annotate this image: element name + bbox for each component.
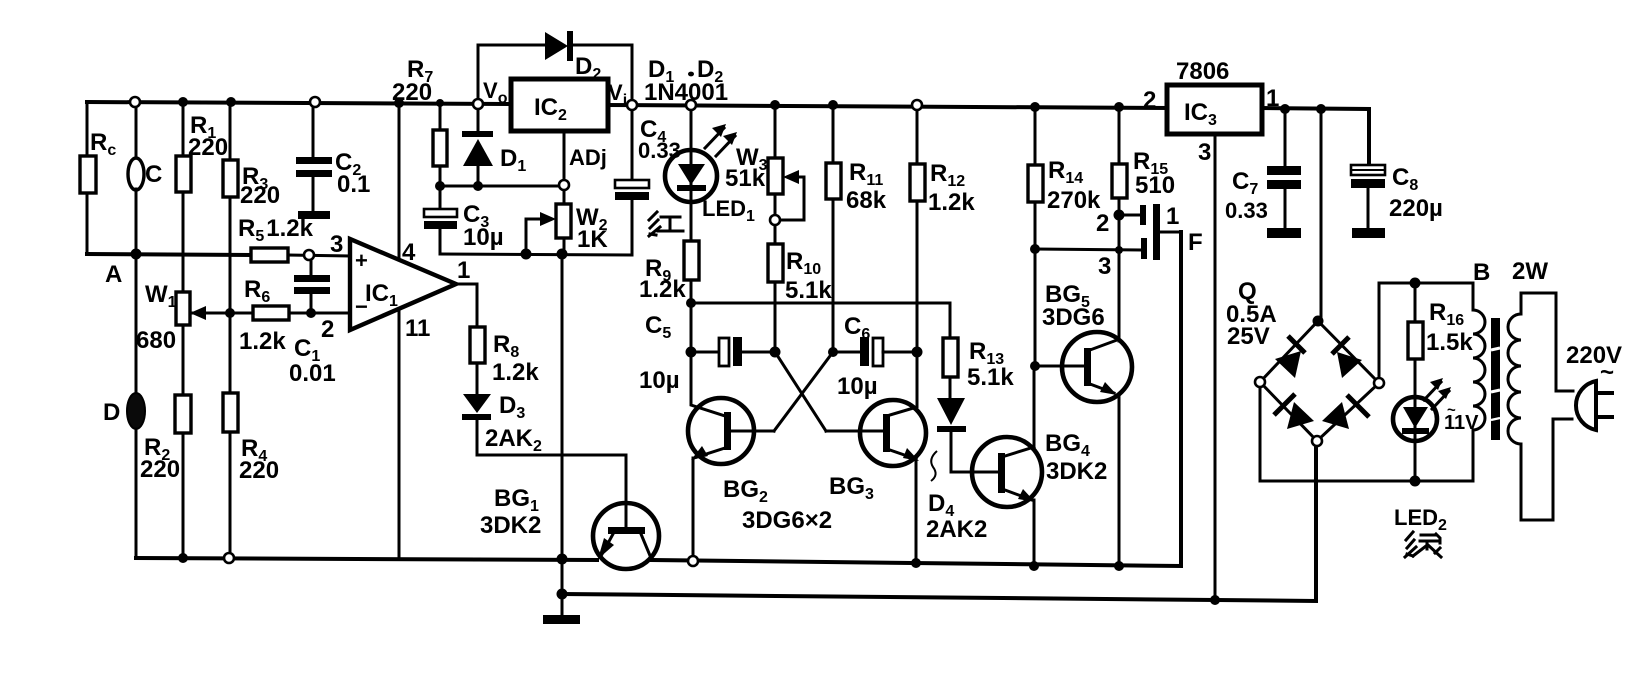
- svg-text:25V: 25V: [1227, 323, 1270, 350]
- label D1 D2 1N4001: [644, 56, 728, 106]
- IC1 pin 4 supply wire: [398, 103, 401, 259]
- svg-text:B: B: [1473, 259, 1490, 286]
- svg-text:10µ: 10µ: [463, 224, 504, 251]
- resistor R14: [1028, 107, 1101, 366]
- potentiometer W2: [526, 204, 608, 254]
- resistor R11: [826, 105, 887, 352]
- wire ground bus line: [562, 444, 1316, 601]
- LED LED1: [665, 105, 768, 241]
- transistor BG3: [742, 352, 926, 563]
- transformer primary winding: [1508, 258, 1556, 520]
- svg-text:3DK2: 3DK2: [1046, 458, 1107, 485]
- svg-text:0.01: 0.01: [289, 360, 336, 387]
- svg-text:1K: 1K: [577, 226, 608, 253]
- op-amp IC1: [321, 231, 470, 343]
- svg-text:1.2k: 1.2k: [928, 189, 975, 216]
- node bridge vertices: [1255, 316, 1384, 447]
- node ground bus junctions: [557, 589, 1221, 606]
- svg-text:220: 220: [140, 456, 180, 483]
- wire left edge column: [86, 102, 89, 254]
- svg-text:1.2k: 1.2k: [639, 276, 686, 303]
- capacitor C7: [1225, 109, 1301, 238]
- svg-text:C: C: [145, 161, 162, 188]
- svg-text:680: 680: [136, 327, 176, 354]
- potentiometer W1: [136, 281, 230, 395]
- transistor BG1: [480, 485, 659, 569]
- transistor BG5: [1035, 281, 1132, 566]
- capacitor C3: [424, 186, 504, 254]
- wire A rail to op-amp pin3: [288, 255, 350, 256]
- diode D3: [462, 392, 542, 455]
- transformer core: [1491, 318, 1500, 440]
- bridge rectifier Q: [1226, 278, 1379, 441]
- svg-text:F: F: [1188, 229, 1203, 256]
- svg-text:1.2k: 1.2k: [239, 328, 286, 355]
- wire top supply rail middle segment: [605, 105, 1170, 108]
- svg-text:270k: 270k: [1047, 187, 1101, 214]
- node right section junctions: [1030, 210, 1125, 372]
- svg-text:7806: 7806: [1176, 58, 1229, 85]
- node regulator junctions: [435, 180, 569, 260]
- voltage regulator IC3 7806: [1143, 58, 1279, 166]
- resistor R8: [470, 327, 539, 394]
- transistor BG2: [688, 398, 774, 561]
- svg-text:1: 1: [1266, 85, 1279, 112]
- mains plug: [1553, 342, 1622, 430]
- resistor R4: [223, 393, 279, 558]
- capacitor C2: [296, 102, 370, 219]
- wire bottom rail left segment: [136, 558, 597, 560]
- capacitor C1: [289, 255, 336, 387]
- resistor R13: [943, 338, 1014, 398]
- photodiode D: [103, 393, 145, 558]
- svg-text:D: D: [103, 399, 120, 426]
- resistor R5: [238, 215, 314, 262]
- LED LED2: [1393, 378, 1479, 534]
- node top rail junctions: [130, 97, 1326, 114]
- svg-text:2: 2: [1096, 210, 1109, 237]
- IC3 pin 3 ground wire: [1214, 134, 1217, 600]
- svg-text:220: 220: [188, 134, 228, 161]
- svg-text:10µ: 10µ: [639, 367, 680, 394]
- diode D4: [926, 398, 999, 543]
- svg-text:ADj: ADj: [569, 145, 607, 170]
- svg-text:R51.2k: R51.2k: [238, 215, 314, 245]
- wire bridge right vertex to secondary top: [1379, 283, 1473, 383]
- svg-text:220: 220: [240, 182, 280, 209]
- resistor R1: [176, 102, 228, 292]
- capacitor C6: [833, 313, 917, 400]
- IC2 ADJ pin: [564, 131, 607, 204]
- resistor R3: [223, 102, 280, 393]
- svg-text:2: 2: [321, 316, 334, 343]
- svg-text:3DG6: 3DG6: [1042, 304, 1105, 331]
- diode D2 bypass loop: [478, 31, 632, 104]
- svg-text:1.2k: 1.2k: [492, 359, 539, 386]
- svg-text:4: 4: [402, 239, 416, 266]
- capacitor C5: [639, 312, 775, 394]
- IC1 output wire: [456, 284, 477, 327]
- svg-text:3DK2: 3DK2: [480, 512, 541, 539]
- svg-text:~: ~: [1600, 359, 1614, 386]
- svg-text:2: 2: [1143, 87, 1156, 114]
- wire node A rail: [87, 254, 251, 255]
- node LED2 loop junctions: [1410, 278, 1421, 487]
- node multivibrator junctions: [686, 215, 923, 358]
- svg-text:A: A: [105, 261, 122, 288]
- resistor R9: [639, 241, 699, 303]
- label red chinese char: [649, 212, 683, 236]
- svg-text:0.33: 0.33: [638, 138, 681, 163]
- diode D1: [462, 104, 526, 186]
- resistor R10: [768, 244, 832, 352]
- svg-text:3: 3: [1198, 139, 1211, 166]
- wire IC3 input from bridge: [1320, 109, 1323, 321]
- wire BG2 collector column: [691, 303, 725, 416]
- svg-text:11: 11: [405, 315, 430, 342]
- node bottom rail junctions: [178, 553, 1124, 571]
- wire R9 node to R13: [691, 303, 950, 338]
- svg-text:51k: 51k: [725, 165, 766, 192]
- resistor R15: [1112, 107, 1175, 341]
- wire ground column from W2 bus: [561, 254, 564, 615]
- svg-text:68k: 68k: [846, 187, 887, 214]
- svg-text:1.5k: 1.5k: [1426, 329, 1473, 356]
- resistor R2: [140, 395, 191, 558]
- photocell C: [128, 102, 162, 254]
- wire top supply rail right segment to C8: [1261, 108, 1369, 166]
- svg-text:1: 1: [1166, 203, 1179, 230]
- IC1 pin 11 ground wire: [398, 309, 401, 559]
- resistor R12: [910, 105, 975, 352]
- svg-text:3: 3: [1098, 253, 1111, 280]
- transistor BG4: [972, 366, 1107, 566]
- svg-text:+: +: [355, 248, 368, 273]
- svg-text:10µ: 10µ: [837, 373, 878, 400]
- svg-text:~: ~: [1447, 402, 1456, 419]
- capacitor C8: [1351, 164, 1443, 238]
- wire regulator bottom bus: [440, 254, 632, 255]
- svg-text:510: 510: [1135, 172, 1175, 199]
- ground: [543, 615, 580, 624]
- resistor R6: [190, 276, 350, 355]
- wire cross coupling C6 to BG2 base: [774, 352, 833, 431]
- wire cross coupling C5 to BG3 base: [775, 352, 826, 431]
- wire D3 to BG1 base: [477, 455, 626, 528]
- svg-text:220: 220: [239, 457, 279, 484]
- wire R7-D1-ADJ node: [440, 185, 564, 188]
- field-effect tube F: [1035, 203, 1203, 280]
- potentiometer W3: [768, 105, 804, 244]
- node inverting input junctions: [225, 308, 316, 318]
- wire bridge left vertex to LED2 loop: [1260, 382, 1473, 481]
- wire bottom rail right segment to FET pin1: [652, 232, 1181, 566]
- node A rail junctions: [131, 249, 315, 261]
- svg-text:220µ: 220µ: [1389, 195, 1443, 222]
- capacitor C4: [615, 105, 681, 255]
- svg-text:5.1k: 5.1k: [785, 277, 832, 304]
- transformer B secondary winding: [1473, 259, 1490, 481]
- svg-text:0.1: 0.1: [337, 171, 370, 198]
- svg-text:2AK2: 2AK2: [926, 516, 987, 543]
- resistor R7: [392, 56, 447, 186]
- svg-text:3DG6×2: 3DG6×2: [742, 507, 832, 534]
- svg-text:1: 1: [457, 257, 470, 284]
- resistor Rc: [80, 102, 116, 254]
- wire top supply rail left segment: [87, 102, 515, 104]
- svg-text:3: 3: [330, 231, 343, 258]
- label green chinese char: [1405, 532, 1441, 557]
- voltage regulator IC2: [483, 78, 627, 131]
- wire column C-D through node A: [135, 254, 138, 394]
- svg-text:2W: 2W: [1512, 258, 1548, 285]
- svg-text:5.1k: 5.1k: [967, 364, 1014, 391]
- svg-text:0.33: 0.33: [1225, 198, 1268, 223]
- resistor R16: [1408, 283, 1473, 397]
